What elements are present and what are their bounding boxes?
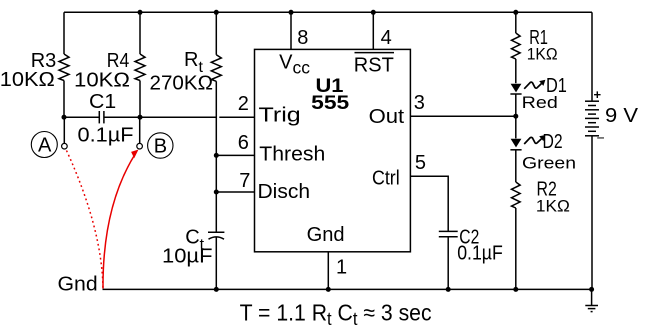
svg-text:0.1µF: 0.1µF — [78, 125, 134, 147]
svg-text:1: 1 — [336, 256, 347, 278]
svg-text:+: + — [594, 87, 602, 102]
svg-text:D2: D2 — [543, 131, 563, 153]
svg-text:8: 8 — [297, 27, 308, 49]
svg-text:5: 5 — [415, 152, 426, 174]
svg-text:B: B — [154, 135, 167, 157]
svg-text:−: − — [597, 130, 605, 146]
svg-text:4: 4 — [381, 27, 392, 49]
svg-text:0.1µF: 0.1µF — [457, 243, 503, 265]
svg-text:Gnd: Gnd — [58, 273, 98, 295]
svg-text:270KΩ: 270KΩ — [150, 73, 214, 95]
svg-text:Vcc: Vcc — [279, 52, 310, 78]
svg-text:6: 6 — [238, 132, 249, 154]
svg-text:C1: C1 — [89, 91, 116, 113]
svg-text:7: 7 — [239, 170, 250, 192]
svg-text:A: A — [38, 134, 52, 156]
svg-text:T = 1.1 Rt Ct ≈ 3 sec: T = 1.1 Rt Ct ≈ 3 sec — [240, 300, 432, 330]
svg-text:Trig: Trig — [259, 105, 301, 127]
svg-text:10µF: 10µF — [162, 246, 213, 268]
svg-text:Out: Out — [369, 106, 405, 128]
svg-text:RST: RST — [354, 55, 394, 77]
svg-text:Red: Red — [522, 93, 558, 112]
svg-text:10KΩ: 10KΩ — [0, 69, 55, 91]
svg-text:Thresh: Thresh — [259, 143, 325, 165]
svg-text:1KΩ: 1KΩ — [527, 45, 558, 64]
svg-text:Ctrl: Ctrl — [372, 167, 400, 189]
svg-text:3: 3 — [414, 92, 425, 114]
svg-text:Gnd: Gnd — [307, 224, 345, 246]
svg-text:Green: Green — [522, 154, 576, 173]
svg-text:2: 2 — [238, 93, 249, 115]
svg-text:Disch: Disch — [258, 181, 311, 203]
svg-text:10KΩ: 10KΩ — [74, 69, 130, 91]
svg-text:555: 555 — [311, 93, 350, 114]
svg-text:9 V: 9 V — [605, 105, 639, 127]
svg-text:1KΩ: 1KΩ — [536, 197, 570, 216]
